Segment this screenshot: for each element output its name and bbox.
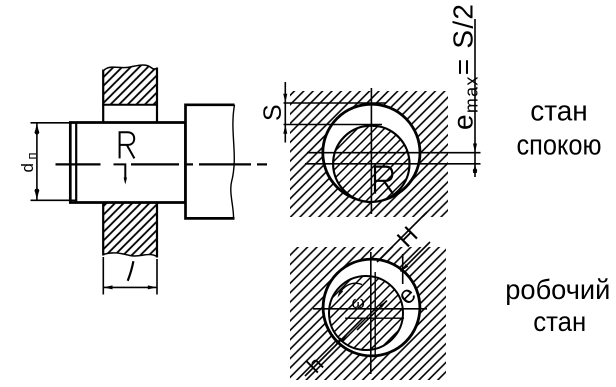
- h arrow up: [340, 335, 348, 343]
- label dn: [18, 149, 39, 173]
- large shaft body: [186, 105, 235, 219]
- H arrow: [401, 264, 409, 272]
- l dimension line: [103, 286, 157, 288]
- label l: [128, 261, 134, 281]
- svg-text:спокою: спокою: [517, 130, 602, 162]
- label emax = S/2: [448, 4, 482, 130]
- svg-text:ω: ω: [352, 293, 365, 312]
- centerline segment 4: [185, 163, 193, 165]
- svg-text:стан: стан: [530, 96, 588, 128]
- svg-text:робочий: робочий: [505, 274, 610, 305]
- l arrow left: [103, 285, 112, 289]
- h dimension line lower: [305, 318, 363, 376]
- label H: [392, 222, 423, 253]
- extension line journal top: [284, 124, 383, 126]
- vertical centerline (working state): [370, 252, 372, 374]
- label e: [392, 281, 422, 311]
- bore circle (working state): [323, 259, 420, 356]
- centerline segment 3: [131, 163, 179, 165]
- bushing upper right wall: [156, 68, 158, 123]
- radius arrow 45deg: [357, 301, 387, 331]
- housing block hatch (working state): [290, 247, 446, 380]
- second vertical centerline (working state): [374, 272, 376, 356]
- bore horizontal centerline (rest state): [307, 152, 481, 154]
- dn dimension extension line top: [31, 122, 77, 124]
- journal horizontal centerline (working state): [345, 317, 404, 319]
- bore circle (rest state): [323, 104, 420, 201]
- journal left end chamfer line: [75, 123, 77, 203]
- bushing upper wavy break line: [103, 65, 157, 71]
- bushing upper section hatch: [103, 65, 157, 105]
- bushing lower right wall: [156, 203, 158, 258]
- emax arrow lower: [473, 164, 477, 173]
- centerline segment 2 with radius corner: [114, 164, 126, 180]
- dn arrow bottom: [35, 190, 40, 200]
- emax arrow upper: [473, 144, 477, 153]
- dn dimension extension line bottom: [31, 199, 77, 201]
- l dimension extension line left: [102, 257, 104, 295]
- dn dimension line: [36, 123, 38, 201]
- bore horizontal centerline (working state): [313, 308, 427, 310]
- omega rotation arc: [339, 283, 362, 295]
- vertical stub near e label: [402, 254, 404, 284]
- large shaft wavy break edge: [231, 105, 235, 219]
- S arrow lower: [283, 125, 287, 134]
- S dimension line: [284, 82, 286, 143]
- label h: [302, 352, 328, 378]
- journal horizontal centerline (rest state): [305, 163, 481, 165]
- extension line bore top: [284, 102, 387, 104]
- bushing upper left wall: [102, 70, 104, 123]
- svg-text:S: S: [259, 104, 287, 121]
- bushing bore top edge: [102, 104, 158, 106]
- vertical centerline (rest state): [370, 88, 372, 214]
- journal shaft body: [70, 123, 185, 203]
- svg-text:стан: стан: [533, 306, 586, 337]
- centerline segment 1: [56, 163, 101, 165]
- emax dimension line: [474, 19, 476, 177]
- bushing lower section hatch: [103, 203, 157, 257]
- S arrow upper: [283, 94, 287, 103]
- h arrow down: [335, 338, 343, 346]
- H dimension line with arrow: [401, 242, 431, 272]
- journal circle (working state): [329, 276, 403, 350]
- label S: [259, 104, 287, 121]
- centerline segment 6: [257, 163, 267, 165]
- bushing lower left wall: [102, 203, 104, 256]
- l arrow right: [148, 285, 157, 289]
- H extension line A: [377, 212, 427, 262]
- centerline segment 5: [199, 163, 251, 165]
- dn arrow top: [35, 123, 40, 133]
- l dimension extension line right: [156, 259, 158, 295]
- journal circle hatch (rest state): [333, 126, 409, 202]
- bushing lower wavy break line: [103, 253, 157, 257]
- label R on journal: [120, 132, 135, 158]
- radius mark arrow: [124, 178, 127, 185]
- housing block hatch (rest state): [290, 91, 448, 217]
- label R in journal (rest state): [375, 167, 393, 194]
